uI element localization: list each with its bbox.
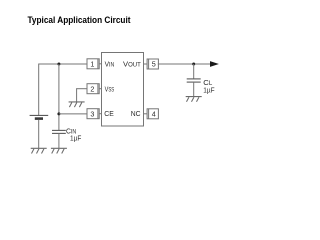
svg-text:NC: NC: [131, 109, 141, 118]
wire CIN vertical upper: [58, 64, 60, 130]
wire battery vertical upper: [38, 64, 40, 116]
svg-text:VIN: VIN: [105, 59, 115, 68]
wire CL vertical upper: [193, 64, 195, 79]
pin 2 box: [87, 84, 102, 94]
node B junction dot CE tap: [57, 112, 60, 115]
node C junction dot output: [192, 63, 195, 66]
svg-text:1µF: 1µF: [70, 134, 82, 143]
svg-text:VSS: VSS: [105, 84, 115, 93]
svg-text:CE: CE: [104, 109, 114, 118]
ground VSS: [69, 102, 85, 107]
svg-text:5: 5: [152, 60, 156, 69]
svg-text:1µF: 1µF: [203, 86, 215, 95]
svg-text:Typical Application Circuit: Typical Application Circuit: [28, 14, 131, 25]
capacitor CIN: [52, 130, 66, 133]
output arrow terminal: [210, 61, 219, 67]
ground below CL: [186, 97, 202, 102]
wire VOUT rail: [158, 63, 210, 65]
svg-text:4: 4: [152, 109, 156, 118]
wire CL vertical lower: [193, 82, 195, 97]
wire battery vertical lower: [38, 120, 40, 149]
pin 1 box: [87, 59, 102, 69]
label CL: [203, 78, 213, 87]
wire VSS stub: [77, 88, 87, 102]
svg-text:VOUT: VOUT: [123, 59, 141, 68]
svg-text:3: 3: [90, 109, 94, 118]
svg-text:2: 2: [90, 84, 94, 93]
pin 4 box: [144, 109, 159, 119]
ground below CIN: [51, 148, 67, 153]
svg-text:1: 1: [90, 59, 94, 68]
pin label VSS: [105, 84, 115, 93]
wire input rail top: [39, 63, 87, 65]
capacitor CL: [187, 79, 201, 82]
pin label VIN: [105, 59, 115, 68]
pin 3 box: [87, 109, 102, 119]
pin label VOUT: [123, 59, 141, 68]
label CIN: [66, 126, 76, 135]
wire CIN vertical lower: [58, 133, 60, 148]
wire CE to pin 3: [59, 113, 87, 115]
node A junction dot on input rail: [57, 63, 60, 66]
pin label NC: [131, 109, 141, 118]
label CL value 1uF: [203, 86, 215, 95]
op-amp U1 regulator IC body: [102, 53, 144, 127]
battery BT1: [30, 115, 49, 118]
pin label CE: [104, 109, 114, 118]
pin 5 box: [144, 59, 159, 69]
ground below battery: [31, 148, 47, 153]
label CIN value 1uF: [70, 134, 82, 143]
